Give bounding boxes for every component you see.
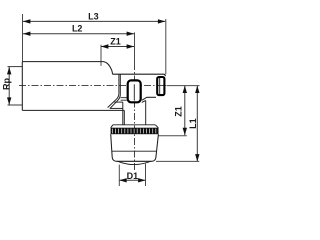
- svg-text:Rp: Rp: [1, 78, 11, 90]
- inner wall line above bottom: [110, 107, 123, 109]
- dimension Z1 right: [184, 86, 186, 136]
- press end bead right: [157, 77, 164, 95]
- knurled band: [111, 128, 159, 135]
- extension line Z1-left (x=101): [100, 45, 102, 66]
- extension line socket stop (y=135.8): [159, 135, 187, 137]
- dimension Rp left: [8, 66, 23, 68]
- dimension L1 right: [196, 86, 198, 162]
- dimension D1 bottom: [118, 165, 120, 186]
- body left edge: [21, 62, 23, 111]
- flange chamfers: [111, 125, 159, 128]
- branch boss left wall (double) with fillet curves: [108, 74, 119, 107]
- right branch wall: [145, 100, 147, 124]
- dimension Z1 top: [101, 46, 134, 48]
- svg-text:L3: L3: [88, 12, 99, 22]
- press socket body: [111, 134, 159, 161]
- centerline vertical: [134, 63, 136, 171]
- extension line branch axis (x=134.5): [134, 32, 136, 63]
- dimension L3: [23, 20, 165, 22]
- svg-text:Z1: Z1: [173, 106, 183, 117]
- body bottom edge: [22, 109, 124, 111]
- flange ledge: [113, 124, 155, 126]
- socket end-cap chord line: [112, 150, 157, 152]
- pill left ledges: [121, 98, 127, 101]
- extension line socket end (y=161.4): [156, 160, 199, 162]
- extension line right (x=165.8): [165, 19, 167, 74]
- svg-text:D1: D1: [127, 171, 139, 181]
- centerline horizontal: [19, 85, 166, 87]
- press indicator boss (front): [128, 80, 141, 102]
- body top edge + shoulder taper: [22, 62, 112, 75]
- small cylinder top edge: [113, 74, 166, 76]
- svg-text:Z1: Z1: [110, 36, 121, 46]
- neck left verticals: [122, 102, 124, 125]
- small cylinder bottom edge right: [147, 96, 156, 98]
- dimension L2: [23, 33, 134, 35]
- right gusset diagonals: [142, 97, 147, 102]
- svg-text:L1: L1: [188, 118, 198, 129]
- socket bottom rim arc: [118, 161, 151, 164]
- svg-text:L2: L2: [72, 24, 83, 34]
- hidden bore bottom line: [114, 101, 123, 103]
- extension line right centerline (y=85.6): [167, 85, 200, 87]
- extension line left (x=22.5): [22, 14, 24, 62]
